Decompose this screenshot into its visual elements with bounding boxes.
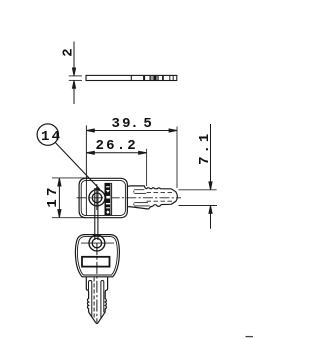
- label rectangle: [82, 257, 110, 267]
- hole vertical centerline: [96, 184, 98, 210]
- keyring hole outer circle: [89, 190, 105, 206]
- svg-text:2: 2: [60, 48, 76, 56]
- svg-text:7.1: 7.1: [197, 131, 213, 165]
- dim 7.1 dimension line and arrows: [209, 124, 212, 229]
- bottom hole horizontal centerline: [81, 242, 114, 244]
- side view blade/head boundary line: [130, 75, 132, 80]
- bottom key blade outline: [86, 277, 107, 324]
- svg-text:14: 14: [41, 129, 62, 145]
- leader line to grip: [55, 142, 99, 189]
- dimension 2 extension lines: [69, 76, 82, 81]
- balloon 14 circle: [37, 124, 58, 145]
- dim 17 dimension line: [58, 178, 61, 217]
- key head outer outline: [79, 178, 127, 217]
- dim 39.5 dimension line: [86, 129, 177, 132]
- leader arrowhead: [95, 186, 102, 191]
- dim 39.5 extension line left: [85, 125, 87, 215]
- key head inner outline: [81, 180, 125, 215]
- svg-text:39.5: 39.5: [112, 116, 154, 132]
- bottom key head outer outline: [75, 235, 119, 277]
- connecting wires: [95, 188, 98, 240]
- blade groove lines: [134, 190, 173, 206]
- dim 17 extension lines: [52, 178, 89, 218]
- dim 39.5 extension line right: [176, 127, 178, 189]
- side view head separation lines: [170, 75, 173, 80]
- dim 26.2 dimension line: [86, 151, 146, 154]
- grip strip (black): [105, 183, 113, 215]
- blade outline: [127, 186, 177, 209]
- key blade side view outline: [86, 75, 177, 80]
- dimension 2 dimension line and arrows: [72, 42, 75, 105]
- horizontal centerline of key: [77, 197, 182, 199]
- svg-text:17: 17: [45, 184, 61, 207]
- bottom blade inner vertical lines: [89, 278, 104, 320]
- bottom key head inner outline: [77, 237, 117, 275]
- bottom key hole inner: [92, 238, 101, 247]
- grip ridge bars (side view): [143, 76, 164, 80]
- grip strip white marks: [106, 186, 110, 214]
- bottom key hole outer: [89, 235, 105, 251]
- keyring hole inner circle: [92, 193, 102, 203]
- dim 26.2 extension line right: [146, 149, 148, 186]
- corner mark bottom right: [246, 336, 254, 338]
- svg-text:26.2: 26.2: [96, 138, 138, 154]
- bottom key vertical centerline: [96, 243, 98, 322]
- dim 7.1 extension lines: [179, 190, 218, 206]
